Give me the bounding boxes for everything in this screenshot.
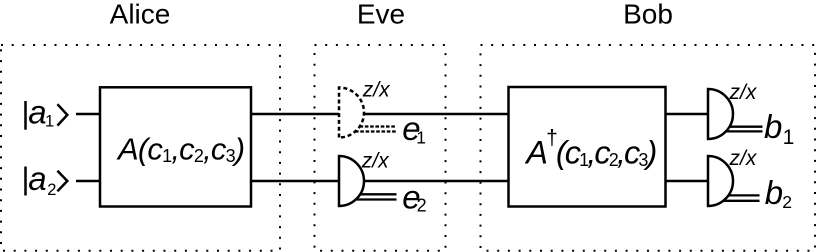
- svg-text:2: 2: [782, 192, 792, 212]
- svg-text:A(c1,c2,c3): A(c1,c2,c3): [116, 132, 244, 167]
- svg-text:1: 1: [416, 128, 426, 148]
- svg-text:Alice: Alice: [110, 0, 171, 30]
- svg-text:b: b: [764, 108, 782, 145]
- svg-text:Bob: Bob: [623, 0, 673, 30]
- svg-text:z/x: z/x: [361, 150, 390, 173]
- svg-text:1: 1: [45, 112, 54, 130]
- svg-text:2: 2: [417, 196, 427, 216]
- svg-text:a: a: [28, 160, 46, 197]
- svg-text:1: 1: [783, 126, 795, 149]
- svg-text:Eve: Eve: [357, 0, 405, 30]
- svg-text:2: 2: [47, 181, 56, 199]
- svg-text:b: b: [765, 174, 783, 211]
- svg-text:z/x: z/x: [362, 79, 391, 102]
- svg-text:z/x: z/x: [729, 81, 758, 104]
- svg-text:a: a: [28, 93, 46, 130]
- svg-text:z/x: z/x: [729, 147, 758, 170]
